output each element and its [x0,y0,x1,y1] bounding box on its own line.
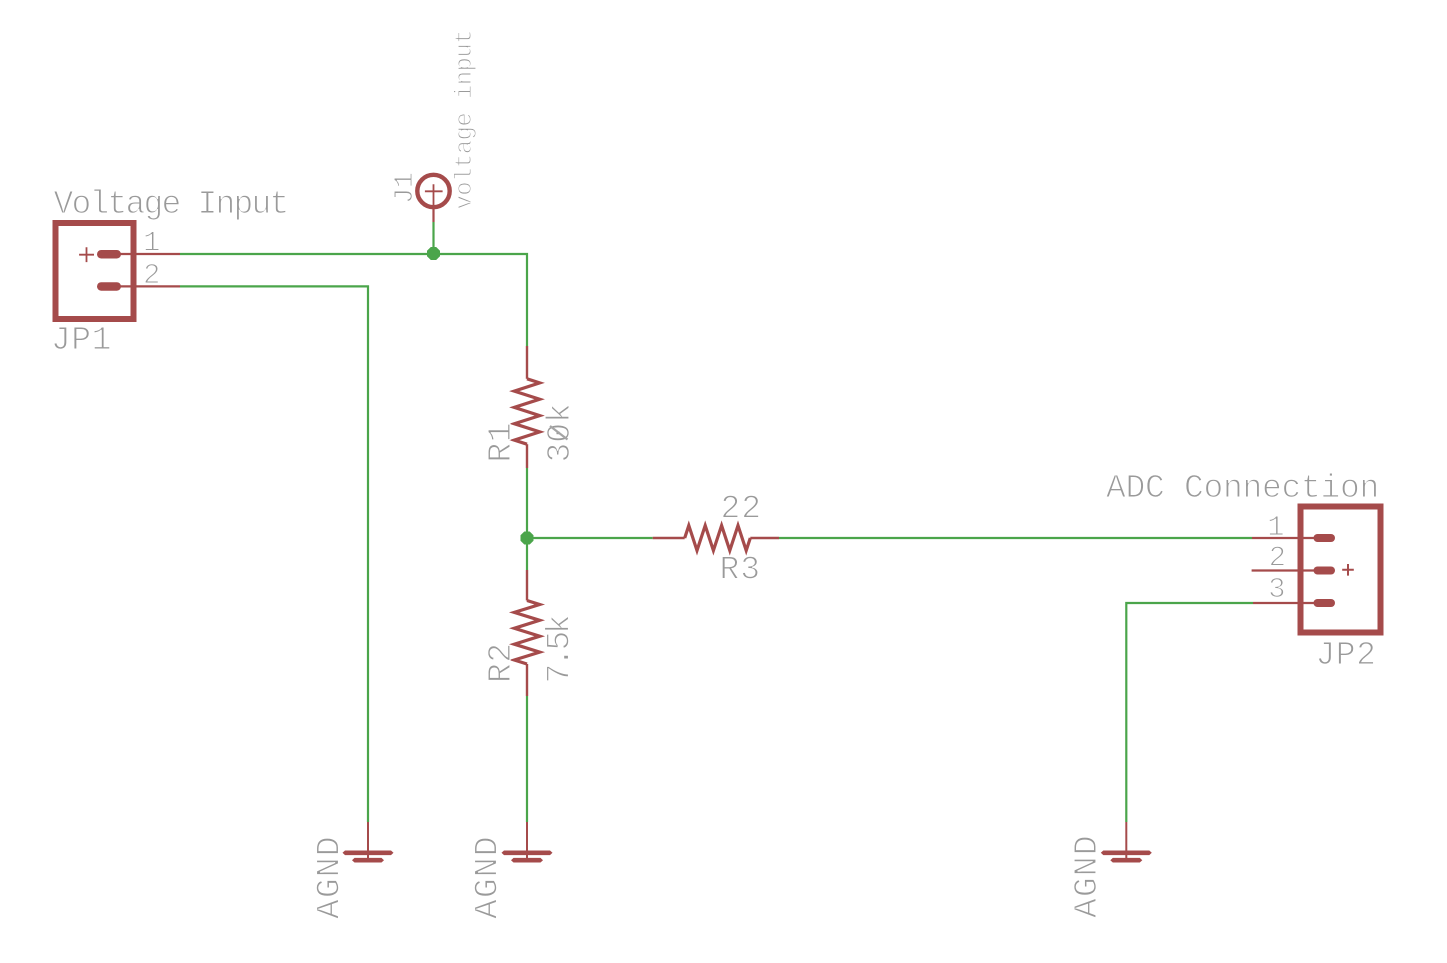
connector JP2 [1106,470,1381,674]
svg-text:1: 1 [143,227,160,260]
R2 top stub [526,570,528,601]
R3 right stub [750,537,779,539]
JP2 pad pin 3 [1314,599,1336,607]
R2 bottom stub [526,664,528,696]
svg-text:Voltage Input: Voltage Input [54,186,288,223]
wire R2 bottom to AGND [526,696,528,822]
JP1 polarity cross [79,247,94,262]
svg-text:JP1: JP1 [51,322,112,359]
svg-text:2: 2 [143,259,160,292]
pad J1 [391,30,479,222]
svg-text:R3: R3 [720,552,762,589]
wire R3 right to JP2 pin1 [779,537,1252,539]
wire J1 drop to net [432,222,434,254]
wire N$1 JP1 pin1 to R1 column [180,254,527,346]
AGND3 bar bottom [1110,858,1142,863]
JP1 pin 1 stub [104,253,180,255]
JP1 pad pin 1 [97,250,121,259]
JP2 pad pin 1 [1314,534,1336,542]
JP2 box [1301,507,1381,633]
svg-text:2: 2 [1269,542,1286,575]
wire JP2 pin3 to AGND [1126,603,1253,822]
R1 bottom stub [526,444,528,468]
ground AGND 1 [312,822,394,919]
R2 zigzag [514,601,539,665]
AGND1 bar bottom [352,858,384,863]
wire R1 bottom to center node [526,468,528,538]
svg-text:ADC Connection: ADC Connection [1106,470,1379,507]
JP1 pad pin 2 [97,282,121,291]
wire JP1 pin2 to AGND [180,286,368,822]
AGND1 bar top [343,851,394,856]
junction at J1 net [427,247,440,260]
JP2 pin 2 stub [1252,569,1330,571]
J1 cross [425,184,443,208]
svg-text:AGND: AGND [470,835,507,919]
AGND2 bar bottom [511,858,543,863]
J1 pin stub [432,205,434,222]
resistor R1 [483,346,579,468]
JP2 polarity cross [1342,564,1354,576]
connector JP1 [51,186,288,359]
JP2 pin 1 stub [1252,537,1330,539]
AGND2 bar top [502,851,553,856]
AGND3 bar top [1101,851,1152,856]
JP1 pin 2 stub [104,285,180,287]
JP1 box [56,223,134,319]
slash of zero in 30k [550,426,568,440]
AGND3 stub [1125,822,1127,861]
R3 zigzag [685,526,751,551]
AGND1 stub [367,822,369,861]
wire node to R3 left [527,537,653,539]
R1 top stub [526,346,528,379]
junction center node [521,532,534,545]
svg-text:AGND: AGND [1069,834,1106,918]
svg-text:R2: R2 [483,642,520,683]
svg-text:AGND: AGND [312,835,349,919]
R1 zigzag [514,379,539,444]
ground AGND 3 [1069,822,1152,918]
svg-text:voltage input: voltage input [452,30,479,209]
svg-text:J1: J1 [391,173,421,204]
JP2 pad pin 2 [1314,567,1336,575]
svg-text:JP2: JP2 [1316,637,1377,674]
svg-text:22: 22 [721,491,763,528]
J1 circle [417,175,449,207]
svg-text:1: 1 [1267,511,1284,544]
JP2 pin 3 stub [1253,602,1330,604]
AGND2 stub [526,822,528,861]
resistor R2 [483,570,579,696]
R3 left stub [653,537,685,539]
svg-text:7.5k: 7.5k [542,615,579,684]
svg-text:3: 3 [1268,573,1285,606]
wire node to R2 top [526,538,528,570]
ground AGND 2 [470,822,553,919]
svg-text:R1: R1 [483,422,520,463]
resistor R3 [653,491,779,589]
